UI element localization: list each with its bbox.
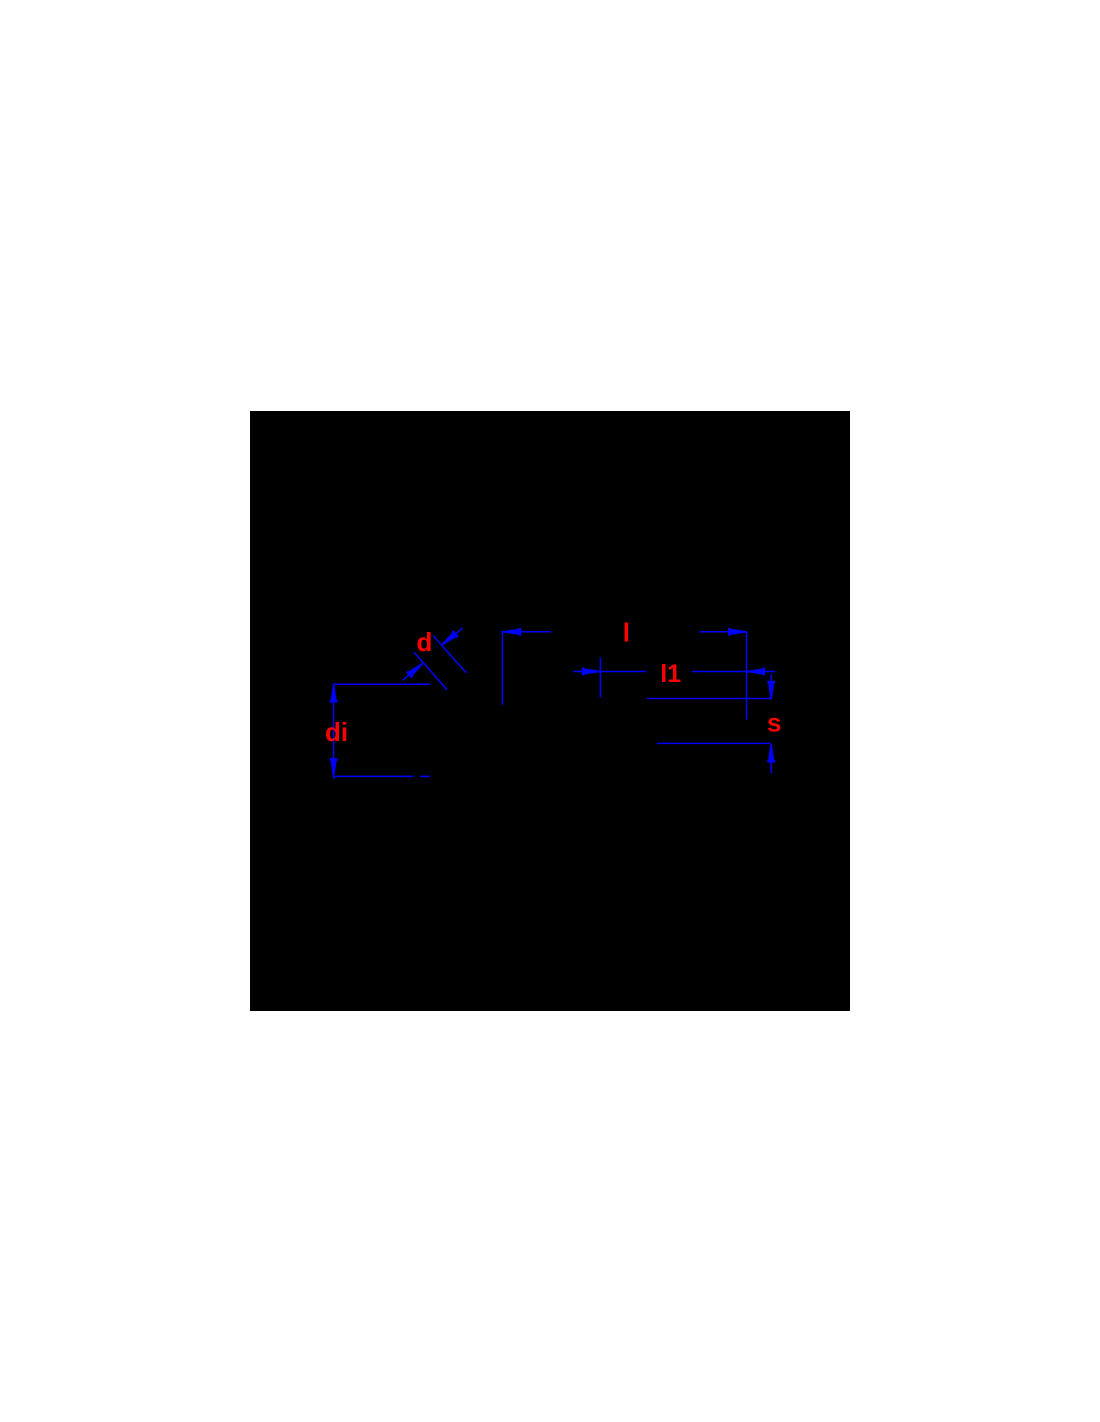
wire: d extension line lower bbox=[414, 652, 447, 690]
wire: di bottom extension line bbox=[333, 775, 414, 777]
wire: d extension line upper bbox=[433, 636, 466, 673]
wire: d arrow 2 shaft bbox=[402, 664, 422, 681]
wire: l1 left segment bbox=[573, 671, 646, 673]
svg-text:l: l bbox=[623, 618, 630, 648]
arrowhead l1 left bbox=[582, 668, 600, 676]
wire: di bottom extension dash bbox=[420, 775, 430, 777]
wire: s bottom arrow shaft bbox=[770, 744, 772, 773]
arrowhead di bottom bbox=[330, 758, 338, 776]
wire: s upper line bbox=[647, 698, 771, 700]
svg-text:d: d bbox=[417, 627, 433, 657]
arrowhead s bottom bbox=[767, 744, 775, 762]
wire: l1 tick bbox=[599, 658, 601, 698]
wire: l left vertical extension bbox=[501, 631, 503, 705]
arrowhead s top bbox=[767, 681, 775, 699]
wire: s lower line bbox=[657, 742, 771, 744]
wire: l left segment bbox=[502, 631, 551, 633]
arrowhead d lower bbox=[406, 661, 425, 679]
arrowhead l right bbox=[728, 628, 746, 636]
arrowhead di top bbox=[330, 685, 338, 703]
svg-text:di: di bbox=[325, 717, 348, 747]
wire: di top extension line bbox=[333, 683, 430, 685]
wire: l right vertical extension bbox=[746, 632, 748, 720]
arrowhead l1 right bbox=[747, 668, 765, 676]
wire: d arrow 1 shaft bbox=[442, 628, 463, 645]
svg-text:l1: l1 bbox=[660, 660, 681, 688]
wire: l1 right segment bbox=[692, 671, 775, 673]
svg-text:s: s bbox=[767, 707, 781, 737]
wire: s top arrow shaft bbox=[770, 674, 772, 699]
product image black square bbox=[250, 411, 850, 1011]
arrowhead l left bbox=[503, 628, 521, 636]
wire: di vertical dimension line bbox=[333, 684, 335, 779]
wire: l right segment bbox=[700, 631, 747, 633]
arrowhead d upper bbox=[440, 630, 459, 648]
